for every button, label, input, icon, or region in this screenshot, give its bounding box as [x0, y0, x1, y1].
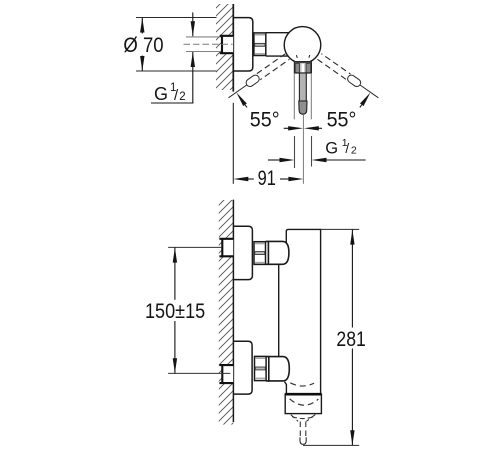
svg-text:55°: 55° [327, 109, 357, 132]
svg-text:150±15: 150±15 [145, 300, 205, 323]
svg-text:281: 281 [336, 328, 365, 351]
svg-text:Ø 70: Ø 70 [123, 34, 163, 57]
svg-text:91: 91 [258, 167, 276, 190]
svg-text:2: 2 [351, 145, 357, 157]
svg-text:/: / [345, 141, 349, 156]
svg-text:G: G [154, 84, 168, 104]
svg-text:55°: 55° [250, 109, 280, 132]
svg-text:2: 2 [179, 91, 185, 103]
svg-text:G: G [325, 140, 338, 158]
